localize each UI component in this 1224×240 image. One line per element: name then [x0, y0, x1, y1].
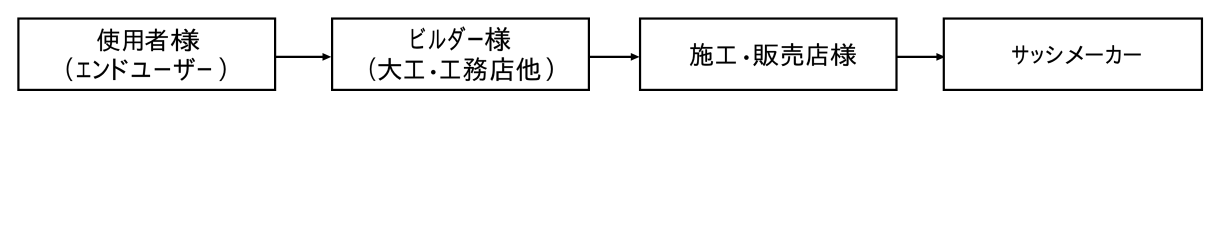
arrow 3: box3 -> box4	[897, 53, 946, 61]
box 1 text line 2: （エンドユーザー）	[67, 58, 226, 82]
arrow 2: box2 -> box3	[589, 53, 640, 61]
box 1: 使用者様（エンドユーザー）	[18, 19, 275, 90]
box 1 text line 1: 使用者様	[97, 29, 199, 52]
arrow 1: box1 -> box2	[275, 53, 331, 61]
flow diagram: end-user to sash maker supply chain	[0, 0, 1224, 121]
box 2 middle dot ・	[431, 70, 435, 74]
box 4: サッシメーカー	[944, 19, 1202, 90]
box 3 text: 施工・販売店様	[690, 43, 856, 66]
box 3: 施工・販売店様	[640, 19, 896, 90]
box 2 text line 2: （大工・工務店他）	[370, 57, 553, 81]
box 4 text: サッシメーカー	[1012, 45, 1140, 64]
box 3 middle dot ・	[744, 55, 748, 59]
box 2: ビルダー様（大工・工務店他）	[332, 19, 589, 90]
box 2 text line 1: ビルダー様	[412, 26, 511, 51]
